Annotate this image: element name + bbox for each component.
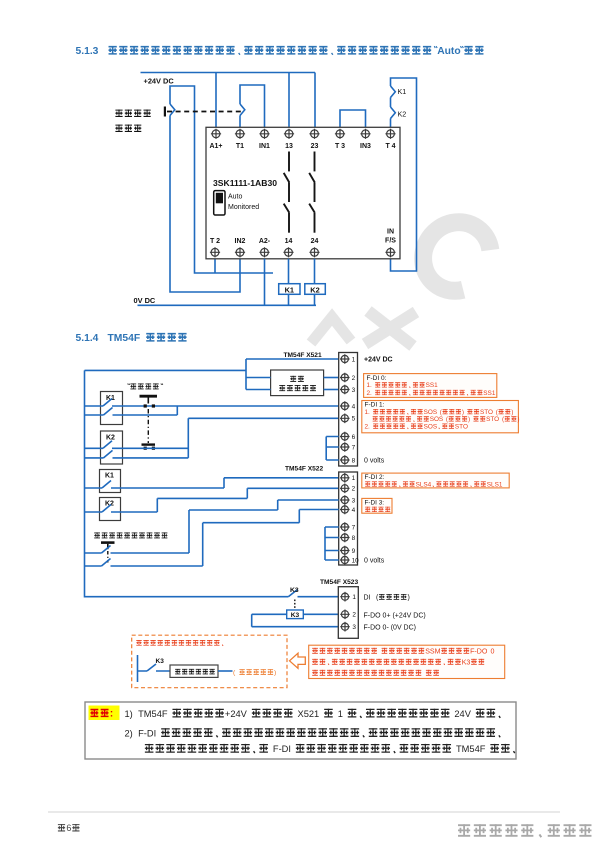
svg-text:8: 8	[352, 457, 356, 464]
watermark letter A	[311, 317, 351, 343]
terminal X522 pin 3	[340, 495, 350, 505]
svg-text:): )	[462, 409, 464, 416]
terminal IN3 top	[360, 129, 370, 139]
blade K1a upper	[103, 399, 112, 407]
wire K1b to X522 pin1	[85, 478, 339, 488]
wire K1a upper to pin4	[85, 405, 339, 407]
wire right switch lower lead	[239, 116, 241, 130]
K3 link dotted	[294, 600, 296, 610]
terminal 23 top	[309, 129, 319, 139]
svg-text:TM54F: TM54F	[456, 744, 486, 754]
debug switch linkage	[147, 409, 149, 443]
wire 14 to K1 coil	[288, 259, 290, 306]
svg-text:K2: K2	[310, 286, 319, 295]
svg-text:T 2: T 2	[210, 238, 220, 245]
design box dashed	[132, 635, 287, 688]
wire estop left upper	[246, 377, 271, 379]
svg-text:STO: STO	[455, 423, 468, 430]
annotation F-DI 0	[364, 374, 497, 398]
wire K2b to X522 pin2	[85, 488, 339, 512]
svg-text:SSM: SSM	[425, 647, 440, 655]
svg-text:IN: IN	[387, 229, 394, 236]
terminal A1+ top	[211, 129, 221, 139]
svg-text:TM54F: TM54F	[138, 709, 168, 719]
notice line 3	[145, 744, 154, 753]
svg-text:SOS: SOS	[424, 409, 438, 416]
svg-text:3: 3	[352, 497, 356, 504]
wire K3 coil to pin3	[252, 614, 339, 626]
wire A1+ drop	[215, 73, 217, 130]
svg-text:): )	[511, 409, 513, 416]
svg-text:2): 2)	[125, 728, 133, 738]
wire left switch to IN2	[170, 116, 240, 293]
svg-text:2.: 2.	[367, 390, 373, 397]
wire K3 to X523 pin1	[298, 596, 339, 598]
terminal 24 bottom	[309, 247, 319, 257]
svg-text:K3: K3	[462, 658, 471, 666]
ack button actuator	[101, 541, 115, 544]
strip TM54F X521	[339, 353, 358, 467]
svg-text:1: 1	[352, 356, 356, 363]
terminal IN1 top	[259, 129, 269, 139]
design circuit wire2	[218, 670, 233, 672]
notice highlight	[89, 706, 120, 721]
debug switch lower actuator	[142, 443, 156, 445]
svg-text:F-DO 0+ (+24V DC): F-DO 0+ (+24V DC)	[364, 612, 426, 619]
svg-text:2: 2	[352, 486, 356, 493]
debug switch actuator	[140, 395, 158, 398]
svg-text:3SK1111-1AB30: 3SK1111-1AB30	[213, 178, 277, 188]
terminal X522 pin 7	[340, 522, 350, 532]
svg-text:F-DI: F-DI	[138, 728, 156, 738]
output contact 13-14	[284, 152, 290, 233]
svg-text:1: 1	[338, 709, 343, 719]
svg-text:TM54F X522: TM54F X522	[285, 466, 323, 473]
ack linkage	[107, 551, 109, 563]
label page number	[58, 824, 65, 831]
svg-text:2: 2	[352, 375, 356, 382]
terminal 14 bottom	[283, 247, 293, 257]
watermark letter X	[365, 311, 416, 346]
svg-text:5: 5	[352, 416, 356, 423]
svg-text:F-DI 3:: F-DI 3:	[365, 500, 385, 507]
output contact 23-24	[309, 152, 315, 233]
svg-text:13: 13	[285, 143, 293, 150]
contact K3 blade	[288, 590, 297, 597]
design circuit bus	[137, 655, 139, 682]
wire +24V feed to X521 pin1	[85, 359, 339, 390]
terminal X523 pin 2	[340, 610, 350, 620]
terminal X521 pin 1	[340, 354, 350, 364]
svg-text:F-DI 0:: F-DI 0:	[367, 375, 387, 382]
svg-text:1): 1)	[125, 709, 133, 719]
svg-text:1.: 1.	[367, 382, 373, 389]
svg-text:T 4: T 4	[385, 143, 395, 150]
annotation F-DI 2	[362, 473, 509, 488]
svg-text:STO: STO	[480, 409, 493, 416]
strip TM54F X522	[339, 472, 358, 565]
svg-text:SOS: SOS	[430, 416, 444, 423]
svg-text:A2-: A2-	[259, 238, 271, 245]
svg-text:4: 4	[352, 403, 356, 410]
svg-text:F-DI: F-DI	[273, 744, 291, 754]
svg-text:IN1: IN1	[259, 143, 270, 150]
terminal 13 top	[284, 129, 294, 139]
label debug switch	[128, 384, 130, 385]
svg-text:1.: 1.	[365, 409, 371, 416]
terminal T1 top	[235, 129, 245, 139]
svg-text:23: 23	[311, 143, 319, 150]
label estop relay	[290, 376, 296, 382]
mode switch icon	[214, 191, 225, 215]
svg-text:K3: K3	[291, 612, 300, 619]
svg-text:SLS4: SLS4	[416, 481, 432, 488]
svg-text:K2: K2	[106, 435, 115, 442]
svg-text:24V: 24V	[454, 709, 471, 719]
mech linkage dashed	[167, 111, 243, 113]
svg-text:2: 2	[352, 612, 356, 619]
notice box	[85, 702, 516, 759]
svg-text:7: 7	[352, 444, 356, 451]
svg-text:): )	[517, 416, 519, 423]
terminal T2 bottom	[210, 247, 220, 257]
svg-text:+24V DC: +24V DC	[364, 357, 393, 364]
wire left bus	[85, 370, 289, 596]
annotation F-DI 3	[362, 498, 392, 513]
relay coil K2	[305, 284, 326, 295]
wire 13 drop	[288, 73, 290, 130]
svg-text:5.1.3: 5.1.3	[76, 46, 99, 57]
debug switch contact dots	[144, 404, 147, 407]
svg-text:): )	[468, 416, 470, 423]
watermark letter C	[409, 209, 498, 300]
svg-text:3: 3	[352, 624, 356, 631]
blade K1a lower	[104, 408, 113, 416]
design box title	[136, 640, 141, 645]
svg-text::: :	[110, 709, 113, 720]
svg-text:SLS1: SLS1	[487, 481, 503, 488]
wire ack lower to X522 pin4	[85, 510, 339, 567]
contact K2 feedback	[391, 107, 396, 119]
relay coil K3	[287, 610, 304, 619]
debug switch lower dots	[144, 447, 147, 450]
svg-text:4: 4	[352, 507, 356, 514]
svg-text:F-DO: F-DO	[470, 647, 488, 655]
label ack button	[94, 532, 100, 538]
contact box K2a	[101, 431, 123, 464]
svg-text:6: 6	[352, 434, 356, 441]
terminal X521 pin 3	[340, 385, 350, 395]
svg-text:IN2: IN2	[235, 238, 246, 245]
svg-text:Monitored: Monitored	[228, 204, 259, 211]
wire left loop T2	[170, 86, 273, 273]
wire between K1 K2	[390, 98, 392, 108]
footer rule	[48, 811, 560, 813]
label door closed	[115, 110, 122, 117]
annotation F-DO 0	[309, 645, 505, 678]
svg-text:6: 6	[66, 823, 71, 833]
svg-text:24: 24	[311, 238, 319, 245]
heading 5.1.3	[76, 46, 484, 57]
svg-text:+24V DC: +24V DC	[144, 77, 175, 86]
contact box K1a	[101, 392, 123, 425]
wire T4 chain top	[391, 78, 417, 271]
design circuit wire1	[138, 670, 171, 672]
svg-text:T1: T1	[236, 143, 244, 150]
svg-text:F-DO 0- (0V DC): F-DO 0- (0V DC)	[364, 625, 417, 632]
blade K2a upper	[103, 441, 112, 449]
wire 23 drop	[314, 73, 316, 130]
svg-text:3: 3	[352, 387, 356, 394]
door switch S1 blade	[170, 104, 175, 116]
svg-text:K2: K2	[398, 110, 407, 119]
wire K2a junction to pin5	[188, 418, 338, 458]
hollow arrow	[290, 653, 306, 668]
terminal X521 pin 6	[340, 432, 350, 442]
terminal X522 pin 10	[340, 555, 350, 565]
svg-text:STO: STO	[486, 416, 499, 423]
terminal X521 pin 4	[340, 401, 350, 411]
wire estop to pin2	[324, 377, 339, 379]
terminal X523 pin 3	[340, 622, 350, 632]
svg-text:K1: K1	[106, 395, 115, 402]
wire T3-IN3 jumper	[340, 110, 366, 129]
svg-text:2.: 2.	[365, 423, 371, 430]
svg-text:5.1.4: 5.1.4	[76, 333, 99, 344]
label publisher	[458, 824, 470, 836]
svg-text:DI: DI	[364, 595, 371, 602]
svg-text:14: 14	[285, 238, 293, 245]
svg-text:TM54F X521: TM54F X521	[284, 352, 322, 359]
svg-text:0: 0	[491, 647, 495, 655]
svg-text:): )	[274, 670, 276, 677]
svg-text:Auto: Auto	[437, 46, 460, 57]
terminal X522 pin 1	[340, 473, 350, 483]
terminal IN F/S	[385, 247, 395, 257]
terminal X522 pin 4	[340, 505, 350, 515]
wire K3 coil to pin2	[303, 613, 338, 615]
terminal X521 pin 8	[340, 455, 350, 465]
jumper X522 7-10	[325, 527, 339, 560]
svg-text:0 volts: 0 volts	[364, 458, 385, 465]
terminal IN2 bottom	[235, 247, 245, 257]
wire K1a lower	[85, 406, 178, 415]
wire A2- to 0V	[264, 259, 266, 306]
strip TM54F X523	[338, 587, 358, 639]
terminal X522 pin 8	[340, 533, 350, 543]
svg-text:SS1: SS1	[426, 382, 439, 389]
svg-text:SOS: SOS	[424, 423, 438, 430]
svg-text:Auto: Auto	[228, 194, 243, 201]
svg-text:TM54F X523: TM54F X523	[320, 579, 358, 586]
wire K2a upper	[85, 447, 189, 449]
relay coil K1	[279, 284, 300, 295]
svg-text:9: 9	[352, 548, 356, 555]
annotation F-DI 1	[362, 401, 519, 433]
wire K2 to box	[390, 119, 392, 130]
svg-text:): )	[408, 595, 410, 602]
svg-text:F-DI 1:: F-DI 1:	[365, 402, 385, 409]
terminal X523 pin 1	[340, 592, 350, 602]
heading 5.1.4	[76, 333, 187, 344]
label door locked	[115, 125, 122, 132]
terminal X521 pin 7	[340, 442, 350, 452]
svg-text:TM54F: TM54F	[108, 333, 141, 344]
blade K2a lower	[104, 450, 113, 458]
contact box K2b	[100, 498, 121, 521]
terminal T4 top	[385, 129, 395, 139]
wire estop to pin3	[324, 389, 339, 391]
svg-text:F-DI 2:: F-DI 2:	[365, 474, 385, 481]
notice label	[90, 709, 98, 717]
svg-text:K1: K1	[398, 87, 407, 96]
svg-text:7: 7	[352, 524, 356, 531]
linkage end bar	[164, 107, 166, 117]
wire K2a lower	[85, 457, 189, 459]
wire right switch upper loop	[240, 85, 265, 129]
svg-text:1: 1	[352, 594, 356, 601]
contact box K1b	[100, 470, 121, 493]
wire 0V rail	[138, 304, 317, 306]
terminal X521 pin 5	[340, 414, 350, 424]
svg-text:0V DC: 0V DC	[134, 296, 156, 305]
wire estop left lower	[246, 389, 271, 391]
door switch S2 blade	[240, 104, 245, 116]
contact K1 feedback	[391, 86, 396, 98]
svg-text:10: 10	[352, 557, 360, 564]
jumper X521 6-7-8	[326, 437, 339, 461]
estop relay box	[271, 370, 324, 396]
design condition box	[170, 665, 218, 677]
wire +24V rail	[141, 72, 316, 74]
svg-text:+24V: +24V	[225, 709, 248, 719]
svg-text:SS1: SS1	[483, 390, 496, 397]
svg-text:T 3: T 3	[335, 143, 345, 150]
svg-text:K1: K1	[105, 473, 114, 480]
blade ack upper	[102, 546, 111, 554]
blade K1b	[102, 481, 111, 489]
blade ack lower	[102, 559, 111, 567]
svg-text:1: 1	[352, 475, 356, 482]
terminal A2- bottom	[259, 247, 269, 257]
design K3 blade	[147, 664, 156, 671]
blade K2b	[102, 505, 111, 513]
terminal X522 pin 9	[340, 546, 350, 556]
svg-text:A1+: A1+	[209, 143, 222, 150]
wire 24 to K2 coil	[314, 259, 316, 306]
svg-text:IN3: IN3	[360, 143, 371, 150]
svg-text:K1: K1	[285, 286, 294, 295]
relay 3SK1111 box	[206, 127, 400, 258]
terminal X521 pin 2	[340, 373, 350, 383]
terminal X522 pin 2	[340, 484, 350, 494]
svg-text:K3: K3	[290, 587, 299, 594]
svg-text:K3: K3	[156, 658, 165, 665]
svg-text:0 volts: 0 volts	[364, 558, 385, 565]
svg-text:8: 8	[352, 535, 356, 542]
wire ack upper to X522 pin3	[85, 500, 339, 553]
svg-text:F/S: F/S	[385, 238, 396, 245]
svg-text:X521: X521	[298, 709, 320, 719]
terminal T3 top	[335, 129, 345, 139]
